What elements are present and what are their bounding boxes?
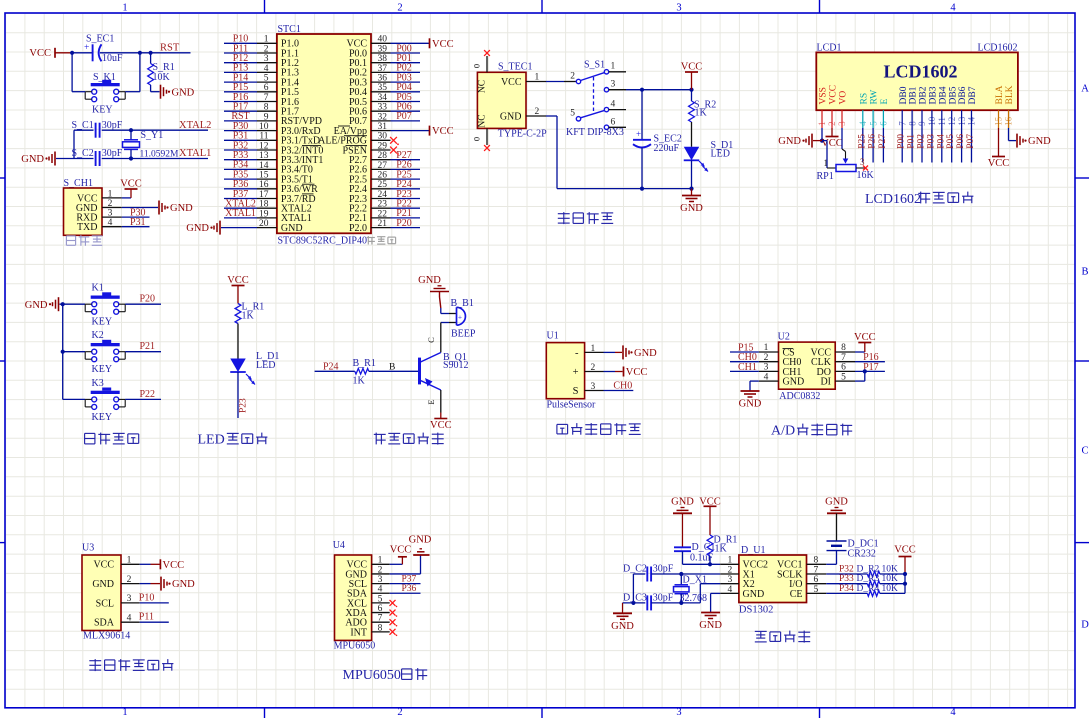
svg-text:5: 5 bbox=[378, 594, 383, 604]
svg-text:+: + bbox=[636, 129, 641, 139]
svg-text:24: 24 bbox=[378, 190, 388, 200]
svg-text:2: 2 bbox=[764, 353, 769, 363]
svg-text:GND: GND bbox=[825, 497, 848, 508]
svg-text:VCC: VCC bbox=[626, 367, 648, 378]
svg-text:VCC: VCC bbox=[390, 544, 412, 555]
svg-text:38: 38 bbox=[378, 54, 388, 64]
svg-text:P33: P33 bbox=[839, 574, 854, 584]
svg-text:5: 5 bbox=[814, 585, 819, 595]
svg-text:5: 5 bbox=[264, 74, 269, 84]
svg-text:-: - bbox=[575, 348, 579, 359]
svg-text:ADC0832: ADC0832 bbox=[779, 391, 820, 402]
svg-text:LED: LED bbox=[198, 433, 225, 448]
svg-text:DB0: DB0 bbox=[899, 86, 909, 104]
svg-text:B_R1: B_R1 bbox=[353, 358, 376, 369]
svg-text:DB4: DB4 bbox=[938, 86, 948, 104]
svg-text:11: 11 bbox=[259, 132, 268, 142]
svg-text:37: 37 bbox=[378, 64, 388, 74]
svg-text:A: A bbox=[1081, 84, 1089, 95]
svg-text:S9012: S9012 bbox=[443, 360, 469, 371]
svg-text:14: 14 bbox=[259, 161, 269, 171]
svg-text:GND: GND bbox=[170, 203, 193, 214]
svg-text:INT: INT bbox=[350, 627, 367, 638]
svg-text:1: 1 bbox=[591, 344, 596, 354]
svg-text:6: 6 bbox=[264, 83, 269, 93]
svg-text:6: 6 bbox=[841, 363, 846, 373]
svg-text:+: + bbox=[84, 43, 89, 53]
svg-text:3: 3 bbox=[108, 209, 113, 219]
svg-text:E: E bbox=[426, 399, 436, 404]
svg-text:KEY: KEY bbox=[92, 317, 113, 328]
svg-text:1: 1 bbox=[122, 3, 127, 14]
svg-text:P26: P26 bbox=[868, 134, 878, 149]
svg-text:VCC: VCC bbox=[163, 560, 185, 571]
svg-text:GND: GND bbox=[634, 348, 657, 359]
svg-text:XTAL2: XTAL2 bbox=[179, 120, 211, 131]
svg-text:VCC: VCC bbox=[432, 126, 454, 137]
svg-text:VO: VO bbox=[839, 91, 849, 105]
svg-text:39: 39 bbox=[378, 44, 388, 54]
svg-text:GND: GND bbox=[743, 589, 765, 600]
svg-text:GND: GND bbox=[680, 203, 703, 214]
svg-text:VCC: VCC bbox=[93, 560, 114, 571]
svg-text:S_C2: S_C2 bbox=[72, 148, 94, 159]
svg-text:GND: GND bbox=[739, 399, 762, 410]
svg-text:1: 1 bbox=[824, 158, 829, 168]
svg-text:23: 23 bbox=[378, 200, 388, 210]
svg-text:3: 3 bbox=[676, 707, 681, 718]
svg-text:CR232: CR232 bbox=[848, 549, 876, 560]
svg-text:1K: 1K bbox=[242, 311, 255, 322]
svg-text:5: 5 bbox=[570, 109, 575, 119]
svg-text:10: 10 bbox=[259, 122, 269, 132]
svg-text:CH1: CH1 bbox=[738, 362, 757, 373]
svg-text:P06: P06 bbox=[956, 134, 966, 149]
svg-text:BLA: BLA bbox=[995, 85, 1005, 104]
svg-text:4: 4 bbox=[950, 3, 956, 14]
svg-text:GND: GND bbox=[783, 377, 805, 388]
svg-text:S_Y1: S_Y1 bbox=[141, 130, 164, 141]
svg-text:SCL: SCL bbox=[96, 598, 114, 609]
svg-text:DS1302: DS1302 bbox=[739, 604, 773, 615]
svg-text:3: 3 bbox=[591, 382, 596, 392]
svg-text:D_C3: D_C3 bbox=[623, 592, 647, 603]
svg-text:7: 7 bbox=[378, 614, 383, 624]
svg-text:P32: P32 bbox=[839, 564, 854, 574]
svg-text:NC: NC bbox=[478, 80, 488, 93]
svg-text:GND: GND bbox=[409, 535, 432, 546]
svg-text:U4: U4 bbox=[333, 540, 345, 551]
svg-text:0: 0 bbox=[472, 64, 482, 68]
svg-text:1K: 1K bbox=[353, 376, 366, 387]
svg-text:19: 19 bbox=[259, 209, 269, 219]
svg-text:P00: P00 bbox=[897, 134, 907, 149]
svg-text:NC: NC bbox=[478, 114, 488, 127]
svg-text:C: C bbox=[426, 337, 436, 343]
svg-text:GND: GND bbox=[186, 223, 209, 234]
svg-text:8: 8 bbox=[264, 103, 269, 113]
svg-text:7: 7 bbox=[841, 353, 846, 363]
svg-text:P37: P37 bbox=[402, 574, 417, 584]
svg-text:2: 2 bbox=[397, 3, 402, 14]
svg-text:VCC: VCC bbox=[854, 332, 876, 343]
svg-text:1: 1 bbox=[535, 72, 540, 82]
svg-text:10K: 10K bbox=[882, 564, 899, 574]
svg-text:SDA: SDA bbox=[94, 618, 115, 629]
svg-text:P10: P10 bbox=[139, 592, 155, 603]
svg-text:34: 34 bbox=[378, 93, 388, 103]
svg-text:7: 7 bbox=[264, 93, 269, 103]
svg-text:P02: P02 bbox=[917, 134, 927, 149]
svg-text:30pF: 30pF bbox=[102, 148, 123, 159]
svg-text:1: 1 bbox=[264, 35, 269, 45]
svg-text:1K: 1K bbox=[715, 544, 728, 555]
svg-text:10K: 10K bbox=[153, 72, 171, 83]
svg-text:2: 2 bbox=[264, 44, 269, 54]
svg-text:KFT DIP-8X3: KFT DIP-8X3 bbox=[566, 127, 624, 138]
svg-text:S_CH1: S_CH1 bbox=[64, 178, 93, 189]
svg-text:VCC: VCC bbox=[501, 77, 522, 88]
svg-text:36: 36 bbox=[378, 74, 388, 84]
svg-text:8: 8 bbox=[378, 623, 383, 633]
svg-text:GND: GND bbox=[21, 154, 44, 165]
svg-text:3: 3 bbox=[611, 80, 616, 90]
svg-text:D_C2: D_C2 bbox=[623, 564, 647, 575]
svg-text:30pF: 30pF bbox=[653, 564, 674, 575]
svg-text:VCC: VCC bbox=[894, 544, 916, 555]
svg-text:DB6: DB6 bbox=[958, 86, 968, 104]
svg-text:XTAL1: XTAL1 bbox=[179, 148, 211, 159]
svg-text:1: 1 bbox=[378, 556, 383, 566]
svg-text:B: B bbox=[389, 362, 395, 372]
svg-text:KEY: KEY bbox=[92, 104, 113, 115]
svg-text:10K: 10K bbox=[882, 574, 899, 584]
svg-text:1: 1 bbox=[108, 189, 113, 199]
svg-text:28: 28 bbox=[378, 151, 388, 161]
svg-text:+: + bbox=[458, 313, 462, 322]
svg-text:VCC: VCC bbox=[430, 420, 452, 431]
svg-text:10uF: 10uF bbox=[102, 53, 123, 64]
svg-text:15: 15 bbox=[259, 171, 269, 181]
svg-text:4: 4 bbox=[378, 585, 383, 595]
svg-text:C: C bbox=[1081, 446, 1088, 457]
svg-text:P25: P25 bbox=[857, 134, 867, 149]
svg-text:GND: GND bbox=[778, 136, 801, 147]
svg-text:S: S bbox=[573, 386, 579, 397]
svg-text:DB5: DB5 bbox=[948, 86, 958, 104]
svg-text:13: 13 bbox=[259, 151, 269, 161]
svg-text:P20: P20 bbox=[396, 218, 412, 229]
svg-text:MLX90614: MLX90614 bbox=[83, 631, 130, 642]
svg-text:P36: P36 bbox=[402, 584, 417, 594]
svg-text:20: 20 bbox=[259, 219, 269, 229]
svg-text:30: 30 bbox=[378, 132, 388, 142]
svg-text:D_R3: D_R3 bbox=[857, 574, 880, 584]
svg-text:2: 2 bbox=[728, 565, 733, 575]
svg-text:MPU6050: MPU6050 bbox=[334, 641, 376, 652]
svg-text:2: 2 bbox=[397, 707, 402, 718]
svg-text:U1: U1 bbox=[547, 331, 559, 342]
svg-text:A/D: A/D bbox=[771, 423, 795, 438]
svg-text:LED: LED bbox=[256, 360, 275, 371]
svg-text:0: 0 bbox=[472, 137, 482, 141]
svg-text:9: 9 bbox=[264, 112, 269, 122]
svg-text:16: 16 bbox=[259, 180, 269, 190]
svg-text:P31: P31 bbox=[130, 217, 146, 228]
svg-text:6: 6 bbox=[378, 604, 383, 614]
svg-text:21: 21 bbox=[378, 219, 388, 229]
svg-text:S_S1: S_S1 bbox=[584, 60, 605, 71]
svg-text:2: 2 bbox=[535, 107, 540, 117]
svg-text:1: 1 bbox=[611, 62, 616, 72]
svg-text:32: 32 bbox=[378, 112, 388, 122]
svg-text:K2: K2 bbox=[92, 330, 104, 341]
svg-text:U3: U3 bbox=[82, 543, 94, 554]
svg-text:3: 3 bbox=[728, 575, 733, 585]
svg-text:P22: P22 bbox=[140, 389, 156, 400]
svg-text:2: 2 bbox=[378, 565, 383, 575]
svg-text:3: 3 bbox=[127, 594, 132, 604]
svg-text:BLK: BLK bbox=[1005, 85, 1015, 104]
svg-text:4: 4 bbox=[264, 64, 269, 74]
svg-text:RP1: RP1 bbox=[817, 171, 834, 182]
svg-text:4: 4 bbox=[728, 585, 733, 595]
svg-text:K3: K3 bbox=[92, 378, 104, 389]
svg-text:GND: GND bbox=[418, 275, 441, 286]
svg-text:4: 4 bbox=[127, 613, 132, 623]
svg-text:LCD1602: LCD1602 bbox=[883, 62, 957, 82]
svg-text:GND: GND bbox=[25, 300, 48, 311]
svg-text:33: 33 bbox=[378, 103, 388, 113]
svg-text:2: 2 bbox=[570, 72, 575, 82]
svg-text:GND: GND bbox=[1028, 136, 1051, 147]
svg-text:4: 4 bbox=[764, 372, 769, 382]
svg-text:DB2: DB2 bbox=[919, 86, 929, 104]
svg-text:26: 26 bbox=[378, 171, 388, 181]
svg-text:VCC: VCC bbox=[681, 62, 703, 73]
svg-text:40: 40 bbox=[378, 35, 388, 45]
svg-text:P01: P01 bbox=[907, 134, 917, 149]
svg-text:DB3: DB3 bbox=[929, 86, 939, 104]
svg-text:P11: P11 bbox=[139, 612, 154, 623]
svg-text:8: 8 bbox=[814, 556, 819, 566]
svg-text:35: 35 bbox=[378, 83, 388, 93]
svg-text:VCC: VCC bbox=[829, 85, 839, 105]
svg-text:VCC: VCC bbox=[821, 138, 843, 149]
svg-text:1: 1 bbox=[122, 707, 127, 718]
svg-text:1K: 1K bbox=[695, 107, 708, 118]
svg-text:P07: P07 bbox=[966, 134, 976, 149]
svg-text:B_B1: B_B1 bbox=[451, 298, 474, 309]
svg-text:31: 31 bbox=[378, 122, 388, 132]
svg-text:STC89C52RC_DIP40: STC89C52RC_DIP40 bbox=[278, 236, 367, 247]
svg-text:D_R2: D_R2 bbox=[857, 564, 880, 574]
svg-text:P20: P20 bbox=[140, 294, 156, 305]
svg-text:30pF: 30pF bbox=[102, 120, 123, 131]
svg-text:RST: RST bbox=[160, 43, 180, 54]
svg-text:P23: P23 bbox=[239, 398, 249, 413]
svg-text:GND: GND bbox=[699, 620, 722, 631]
svg-text:P27: P27 bbox=[878, 134, 888, 149]
svg-text:3: 3 bbox=[378, 575, 383, 585]
svg-text:8: 8 bbox=[841, 343, 846, 353]
svg-text:1: 1 bbox=[728, 556, 733, 566]
svg-text:GND: GND bbox=[671, 497, 694, 508]
svg-text:P21: P21 bbox=[140, 341, 156, 352]
svg-text:P2.0: P2.0 bbox=[349, 223, 367, 234]
svg-text:10K: 10K bbox=[882, 584, 899, 594]
svg-text:1: 1 bbox=[764, 343, 769, 353]
svg-text:P04: P04 bbox=[936, 134, 946, 149]
svg-text:P03: P03 bbox=[926, 134, 936, 149]
svg-text:4: 4 bbox=[950, 707, 956, 718]
svg-text:+: + bbox=[573, 367, 579, 378]
svg-text:DB1: DB1 bbox=[909, 86, 919, 104]
svg-text:5: 5 bbox=[841, 372, 846, 382]
svg-text:KEY: KEY bbox=[92, 412, 113, 423]
svg-text:E: E bbox=[880, 99, 890, 105]
svg-text:CE: CE bbox=[790, 589, 803, 600]
svg-text:18: 18 bbox=[259, 200, 269, 210]
svg-text:K1: K1 bbox=[92, 283, 104, 294]
svg-text:CH0: CH0 bbox=[613, 380, 632, 391]
svg-text:S_C1: S_C1 bbox=[72, 120, 94, 131]
svg-text:RS: RS bbox=[859, 93, 869, 105]
svg-text:2: 2 bbox=[127, 575, 132, 585]
svg-text:P34: P34 bbox=[839, 584, 854, 594]
svg-text:GND: GND bbox=[172, 579, 195, 590]
svg-text:VCC: VCC bbox=[432, 39, 454, 50]
svg-text:LED: LED bbox=[711, 149, 730, 160]
svg-text:S_TEC1: S_TEC1 bbox=[498, 62, 532, 73]
svg-text:P07: P07 bbox=[396, 111, 412, 122]
svg-text:GND: GND bbox=[500, 112, 522, 123]
svg-text:3: 3 bbox=[860, 157, 865, 167]
svg-text:220uF: 220uF bbox=[654, 143, 680, 154]
svg-text:6: 6 bbox=[814, 575, 819, 585]
svg-text:27: 27 bbox=[378, 161, 388, 171]
svg-text:BEEP: BEEP bbox=[451, 329, 476, 340]
svg-text:VCC: VCC bbox=[227, 275, 249, 286]
svg-text:DI: DI bbox=[820, 377, 831, 388]
svg-text:25: 25 bbox=[378, 180, 388, 190]
svg-text:12: 12 bbox=[259, 141, 269, 151]
svg-text:VCC: VCC bbox=[120, 179, 142, 190]
svg-text:VCC: VCC bbox=[29, 48, 51, 59]
svg-text:2: 2 bbox=[591, 363, 596, 373]
svg-text:KEY: KEY bbox=[92, 364, 113, 375]
svg-text:2: 2 bbox=[108, 199, 113, 209]
svg-text:TYPE-C-2P: TYPE-C-2P bbox=[498, 129, 547, 140]
svg-text:22: 22 bbox=[378, 209, 388, 219]
svg-text:MPU6050: MPU6050 bbox=[343, 668, 401, 683]
svg-text:3: 3 bbox=[764, 363, 769, 373]
svg-text:DB7: DB7 bbox=[968, 86, 978, 104]
svg-text:6: 6 bbox=[611, 117, 616, 127]
svg-text:LCD1602: LCD1602 bbox=[865, 192, 921, 207]
svg-text:TXD: TXD bbox=[77, 222, 98, 233]
svg-text:3: 3 bbox=[264, 54, 269, 64]
svg-text:D: D bbox=[1081, 620, 1089, 631]
svg-text:B: B bbox=[1081, 267, 1088, 278]
svg-text:4: 4 bbox=[108, 218, 113, 228]
svg-text:1: 1 bbox=[127, 556, 132, 566]
svg-text:VCC: VCC bbox=[988, 158, 1010, 169]
svg-text:GND: GND bbox=[92, 579, 114, 590]
svg-text:PulseSensor: PulseSensor bbox=[547, 400, 597, 411]
svg-text:RW: RW bbox=[870, 90, 880, 105]
svg-text:7: 7 bbox=[814, 565, 819, 575]
svg-text:29: 29 bbox=[378, 141, 388, 151]
svg-text:XTAL1: XTAL1 bbox=[225, 208, 256, 219]
svg-text:GND: GND bbox=[281, 223, 303, 234]
svg-text:3: 3 bbox=[676, 3, 681, 14]
svg-text:P05: P05 bbox=[946, 134, 956, 149]
svg-text:4: 4 bbox=[611, 99, 616, 109]
svg-text:GND: GND bbox=[611, 621, 634, 632]
svg-text:D_R4: D_R4 bbox=[857, 584, 880, 594]
svg-text:VSS: VSS bbox=[819, 87, 829, 104]
svg-text:U2: U2 bbox=[778, 332, 790, 343]
svg-text:S_EC1: S_EC1 bbox=[86, 34, 114, 45]
svg-text:GND: GND bbox=[172, 87, 195, 98]
svg-text:17: 17 bbox=[259, 190, 269, 200]
svg-text:30pF: 30pF bbox=[653, 592, 674, 603]
svg-text:16K: 16K bbox=[857, 170, 875, 181]
